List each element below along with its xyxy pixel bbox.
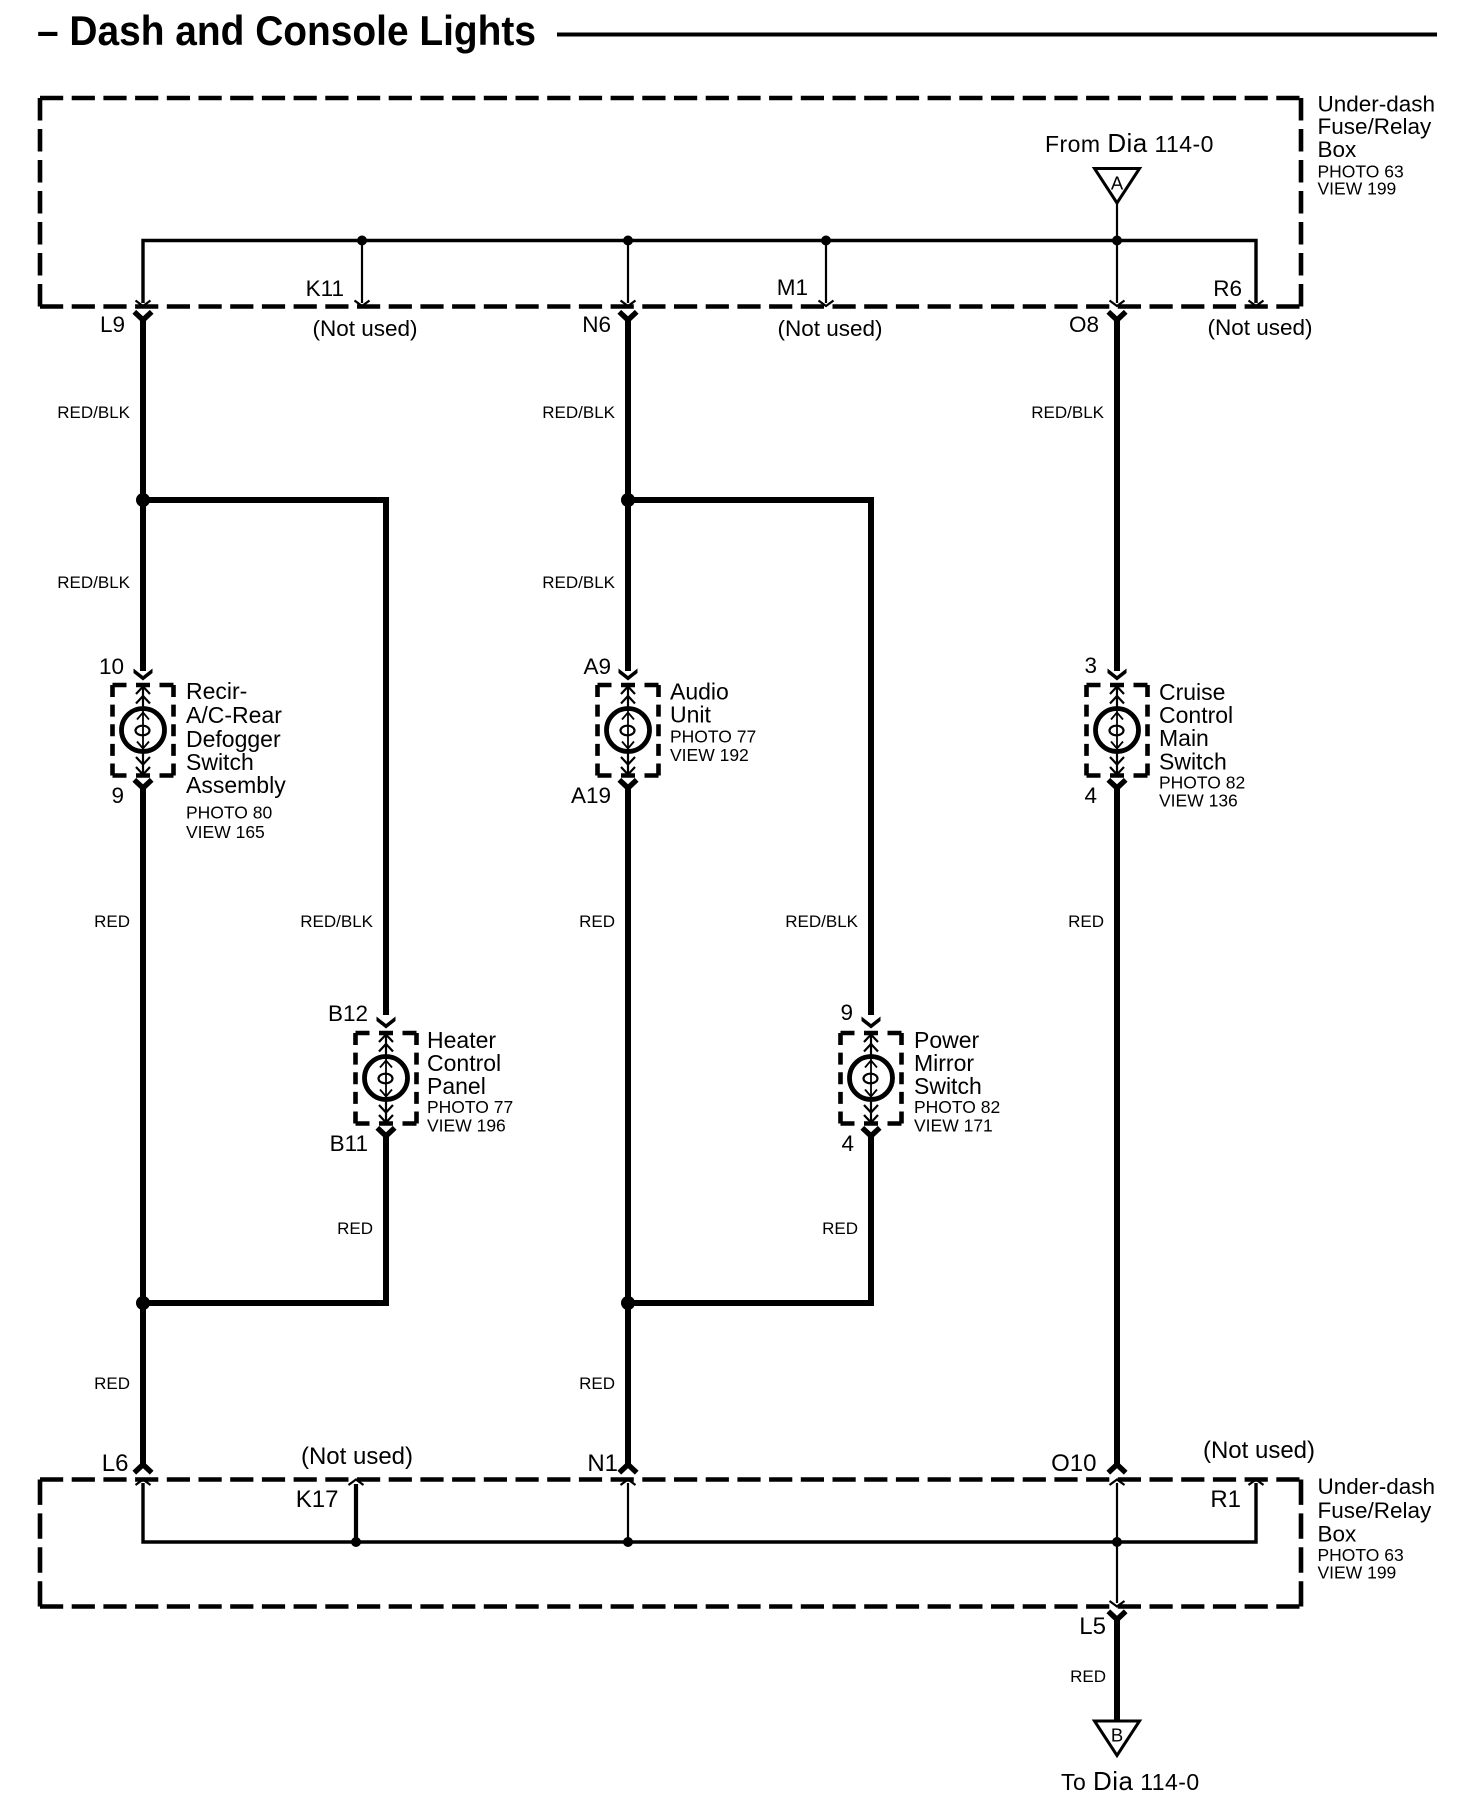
wire RED from heater B11 to junction xyxy=(143,1136,386,1303)
label (Not used) K17 xyxy=(301,1443,413,1470)
wire RED from recirc pin 9 xyxy=(140,788,146,1464)
terminal N6 (female) xyxy=(619,312,636,320)
terminal N1 (female) xyxy=(619,1465,636,1473)
svg-text:B11: B11 xyxy=(330,1131,368,1156)
wire: N6 drop xyxy=(627,241,629,304)
svg-text:Under-dash: Under-dash xyxy=(1318,1474,1436,1499)
terminal arrow at bottom box bottom edge (L5) xyxy=(1110,1601,1125,1607)
svg-text:PHOTO 82: PHOTO 82 xyxy=(1159,773,1245,793)
label (Not used) R1 xyxy=(1203,1437,1315,1464)
wire: O8 drop xyxy=(1116,241,1118,304)
wire N6 RED/BLK down to lamp xyxy=(625,320,631,672)
svg-text:A: A xyxy=(1111,173,1124,194)
svg-text:VIEW 199: VIEW 199 xyxy=(1318,1563,1397,1583)
terminal O10 (female) xyxy=(1108,1465,1125,1473)
terminal L9 (female) xyxy=(134,312,151,320)
terminal pin B11 (female) xyxy=(377,1128,394,1136)
svg-text:RED: RED xyxy=(94,912,130,931)
wire label RED (L6 lower) xyxy=(94,1374,130,1393)
terminal arrow at top box edge x=362 xyxy=(355,301,370,307)
pin label N1 xyxy=(587,1450,618,1477)
svg-text:L5: L5 xyxy=(1079,1613,1106,1640)
svg-text:M1: M1 xyxy=(777,275,808,300)
pin B12 label (heater control panel) xyxy=(328,1001,368,1026)
wire RED from L5 to connector B xyxy=(1114,1620,1120,1722)
svg-text:RED/BLK: RED/BLK xyxy=(542,403,615,422)
pin 4 label (power mirror switch) xyxy=(841,1131,854,1156)
svg-text:N1: N1 xyxy=(587,1450,618,1477)
pin label K11 xyxy=(306,276,344,301)
svg-text:(Not used): (Not used) xyxy=(1207,315,1312,340)
node: bus junction at O10 xyxy=(1112,1537,1122,1547)
terminal arrow into audio unit xyxy=(619,669,638,681)
wire label RED/BLK (O8 upper) xyxy=(1031,403,1104,422)
svg-text:VIEW 192: VIEW 192 xyxy=(670,745,749,765)
svg-text:Assembly: Assembly xyxy=(186,772,286,798)
terminal arrow at top box edge x=143 xyxy=(136,301,151,307)
pin label O8 xyxy=(1069,312,1099,337)
wire: M1 drop xyxy=(825,241,827,304)
lamp: Power Mirror Switch xyxy=(841,1033,902,1124)
label: To Dia 114-0 xyxy=(1061,1766,1200,1796)
terminal pin 4 PM (female) xyxy=(862,1128,879,1136)
label: From Dia 114-0 xyxy=(1045,128,1214,158)
svg-text:K17: K17 xyxy=(296,1486,339,1513)
wire label RED (heater return) xyxy=(337,1219,373,1238)
terminal pin A19 (female) xyxy=(619,780,636,788)
svg-text:RED/BLK: RED/BLK xyxy=(542,573,615,592)
svg-text:RED/BLK: RED/BLK xyxy=(57,403,130,422)
terminal arrow into recirc switch assembly xyxy=(134,669,153,681)
svg-text:A19: A19 xyxy=(571,783,611,808)
svg-text:A9: A9 xyxy=(583,654,611,679)
connector A (triangle) xyxy=(1095,169,1140,204)
svg-text:Fuse/Relay: Fuse/Relay xyxy=(1318,1498,1433,1523)
bus wire inside bottom box xyxy=(143,1483,1256,1542)
svg-text:RED: RED xyxy=(1070,1667,1106,1686)
svg-text:RED/BLK: RED/BLK xyxy=(300,912,373,931)
under-dash fuse/relay box (top) outline xyxy=(40,98,1301,307)
terminal arrow at bottom box top edge x=1256 xyxy=(1249,1480,1264,1486)
terminal arrow into power mirror switch xyxy=(862,1017,881,1029)
caption: Recir-A/C-Rear Defogger Switch Assembly xyxy=(186,678,286,842)
node: bus junction at N1 (bottom) xyxy=(623,1537,633,1547)
terminal pin 4 (female) xyxy=(1108,780,1125,788)
terminal arrow at bottom box top edge x=1117 xyxy=(1110,1480,1125,1486)
svg-text:O10: O10 xyxy=(1051,1450,1096,1477)
svg-text:– Dash and Console Lights: – Dash and Console Lights xyxy=(37,7,536,54)
svg-text:PHOTO 82: PHOTO 82 xyxy=(914,1097,1000,1117)
svg-text:(Not used): (Not used) xyxy=(312,316,417,341)
pin label N6 xyxy=(582,312,611,337)
label (Not used) K11 xyxy=(312,316,417,341)
lamp: Recir-A/C-Rear Defogger Switch Assembly xyxy=(113,685,174,776)
svg-text:B: B xyxy=(1111,1725,1123,1746)
svg-text:L9: L9 xyxy=(100,312,125,337)
svg-text:PHOTO 77: PHOTO 77 xyxy=(670,727,756,747)
wire label RED (O10) xyxy=(1068,912,1104,931)
svg-text:RED/BLK: RED/BLK xyxy=(1031,403,1104,422)
pin 3 label (cruise control main switch) xyxy=(1084,653,1097,678)
svg-text:(Not used): (Not used) xyxy=(1203,1437,1315,1464)
connector B (triangle) xyxy=(1095,1721,1140,1756)
title: Dash and Console Lights xyxy=(37,7,1437,54)
wire label RED (N1 upper) xyxy=(579,912,615,931)
svg-text:9: 9 xyxy=(840,1000,853,1025)
terminal arrow at top box edge x=628 xyxy=(621,301,636,307)
terminal L6 (female) xyxy=(134,1465,151,1473)
wire label RED (N1 lower) xyxy=(579,1374,615,1393)
wire label RED (power mirror return) xyxy=(822,1219,858,1238)
svg-text:R6: R6 xyxy=(1213,276,1242,301)
svg-text:4: 4 xyxy=(841,1131,854,1156)
wire label RED/BLK (N6 upper) xyxy=(542,403,615,422)
svg-text:L6: L6 xyxy=(102,1450,129,1477)
wire: O10 riser and L5 drop xyxy=(1116,1483,1118,1603)
svg-text:RED: RED xyxy=(579,912,615,931)
svg-text:Panel: Panel xyxy=(427,1073,486,1099)
terminal L5 (female) xyxy=(1108,1611,1125,1619)
wire RED from audio pin A19 xyxy=(625,788,631,1464)
pin A19 label (audio unit) xyxy=(571,783,611,808)
svg-text:R1: R1 xyxy=(1210,1486,1241,1513)
svg-text:K11: K11 xyxy=(306,276,344,301)
terminal arrow at bottom box top edge x=356 xyxy=(349,1480,364,1486)
svg-text:VIEW 199: VIEW 199 xyxy=(1318,179,1397,199)
top fuse/relay box caption xyxy=(1318,92,1436,199)
label (Not used) R6 xyxy=(1207,315,1312,340)
svg-text:To Dia 114-0: To Dia 114-0 xyxy=(1061,1766,1200,1796)
svg-text:9: 9 xyxy=(111,783,124,808)
svg-text:O8: O8 xyxy=(1069,312,1099,337)
wire label RED (L5) xyxy=(1070,1667,1106,1686)
wire: N1 riser xyxy=(627,1483,629,1542)
terminal pin 9 (female) xyxy=(134,780,151,788)
under-dash fuse/relay box (bottom) outline xyxy=(40,1480,1301,1607)
lamp: Heater Control Panel xyxy=(356,1033,417,1124)
svg-text:Main: Main xyxy=(1159,725,1209,751)
wire label RED/BLK (L9 lower) xyxy=(57,573,130,592)
svg-text:VIEW 196: VIEW 196 xyxy=(427,1116,506,1136)
terminal O8 (female) xyxy=(1108,312,1125,320)
wire label RED/BLK (power mirror branch) xyxy=(785,912,858,931)
wire label RED/BLK (L9 upper) xyxy=(57,403,130,422)
pin 9 label (recirc switch assembly) xyxy=(111,783,124,808)
terminal arrow into cruise control main switch xyxy=(1108,669,1127,681)
svg-text:PHOTO 77: PHOTO 77 xyxy=(427,1097,513,1117)
svg-text:Fuse/Relay: Fuse/Relay xyxy=(1318,114,1433,139)
svg-text:10: 10 xyxy=(99,654,124,679)
node: junction N6 branch xyxy=(621,493,635,507)
svg-text:N6: N6 xyxy=(582,312,611,337)
pin label K17 xyxy=(296,1486,339,1513)
wire O8 RED/BLK down to lamp xyxy=(1114,320,1120,672)
bus wire inside top box xyxy=(143,241,1256,304)
pin label R1 xyxy=(1210,1486,1241,1513)
pin label L5 xyxy=(1079,1613,1106,1640)
lamp: Cruise Control Main Switch xyxy=(1087,685,1148,776)
svg-text:RED: RED xyxy=(1068,912,1104,931)
pin 4 label (cruise control main switch) xyxy=(1084,783,1097,808)
node: bus junction at O8 xyxy=(1112,236,1122,246)
terminal arrow at top box edge x=1117 xyxy=(1110,301,1125,307)
node: bus junction at K11 xyxy=(357,236,367,246)
terminal arrow into heater control panel xyxy=(377,1017,396,1029)
caption: Power Mirror Switch xyxy=(914,1027,1000,1136)
caption: Cruise Control Main Switch xyxy=(1159,679,1245,811)
pin B11 label (heater control panel) xyxy=(330,1131,368,1156)
svg-text:PHOTO 80: PHOTO 80 xyxy=(186,803,273,823)
caption: Heater Control Panel xyxy=(427,1027,513,1136)
node: junction heater return xyxy=(136,1296,150,1310)
wire: branch to power mirror switch xyxy=(628,500,871,1015)
wire: K11 drop xyxy=(361,241,363,304)
svg-text:RED: RED xyxy=(579,1374,615,1393)
wire L9 RED/BLK down to lamp xyxy=(140,320,146,672)
pin 9 label (power mirror switch) xyxy=(840,1000,853,1025)
wire label RED (L6 upper) xyxy=(94,912,130,931)
wire label RED/BLK (N6 lower) xyxy=(542,573,615,592)
svg-text:VIEW 171: VIEW 171 xyxy=(914,1116,993,1136)
svg-text:B12: B12 xyxy=(328,1001,368,1026)
svg-text:Switch: Switch xyxy=(914,1073,982,1099)
svg-text:RED/BLK: RED/BLK xyxy=(785,912,858,931)
svg-text:(Not used): (Not used) xyxy=(301,1443,413,1470)
node: bus junction at M1 xyxy=(821,236,831,246)
pin label L9 xyxy=(100,312,125,337)
bottom fuse/relay box caption xyxy=(1318,1474,1436,1583)
wire RED from cruise pin 4 xyxy=(1114,788,1120,1464)
lamp: Audio Unit xyxy=(598,685,659,776)
node: bus junction at K17 xyxy=(351,1537,361,1547)
node: bus junction at N6 xyxy=(623,236,633,246)
svg-text:(Not used): (Not used) xyxy=(777,316,882,341)
terminal arrow at bottom box top edge x=628 xyxy=(621,1480,636,1486)
pin 10 label (recirc switch assembly) xyxy=(99,654,124,679)
wire RED from power mirror 4 to junction xyxy=(628,1136,871,1303)
svg-text:Under-dash: Under-dash xyxy=(1318,92,1436,117)
terminal arrow at top box edge x=1256 xyxy=(1249,301,1264,307)
svg-text:RED: RED xyxy=(337,1219,373,1238)
svg-text:3: 3 xyxy=(1084,653,1097,678)
svg-text:Box: Box xyxy=(1318,1522,1358,1547)
wire label RED/BLK (heater branch) xyxy=(300,912,373,931)
pin label L6 xyxy=(102,1450,129,1477)
svg-text:VIEW 165: VIEW 165 xyxy=(186,822,265,842)
label (Not used) M1 xyxy=(777,316,882,341)
pin label M1 xyxy=(777,275,808,300)
node: junction power mirror return xyxy=(621,1296,635,1310)
caption: Audio Unit xyxy=(670,679,756,766)
svg-text:RED: RED xyxy=(822,1219,858,1238)
svg-text:Unit: Unit xyxy=(670,702,712,728)
wire: connector A to bus xyxy=(1116,203,1118,241)
svg-text:Recir-: Recir- xyxy=(186,678,247,704)
svg-text:From Dia 114-0: From Dia 114-0 xyxy=(1045,128,1214,158)
terminal arrow at bottom box top edge x=143 xyxy=(136,1480,151,1486)
svg-text:Switch: Switch xyxy=(1159,749,1227,775)
node: junction L9 branch xyxy=(136,493,150,507)
terminal arrow at top box edge x=826 xyxy=(819,301,834,307)
pin label R6 xyxy=(1213,276,1242,301)
pin label O10 xyxy=(1051,1450,1096,1477)
svg-text:VIEW 136: VIEW 136 xyxy=(1159,791,1238,811)
svg-text:A/C-Rear: A/C-Rear xyxy=(186,702,282,728)
wire: K17 riser xyxy=(354,1484,358,1542)
svg-text:Box: Box xyxy=(1318,137,1358,162)
wire: branch to heater control panel xyxy=(143,500,386,1015)
pin A9 label (audio unit) xyxy=(583,654,611,679)
svg-text:4: 4 xyxy=(1084,783,1097,808)
svg-text:RED: RED xyxy=(94,1374,130,1393)
svg-text:RED/BLK: RED/BLK xyxy=(57,573,130,592)
